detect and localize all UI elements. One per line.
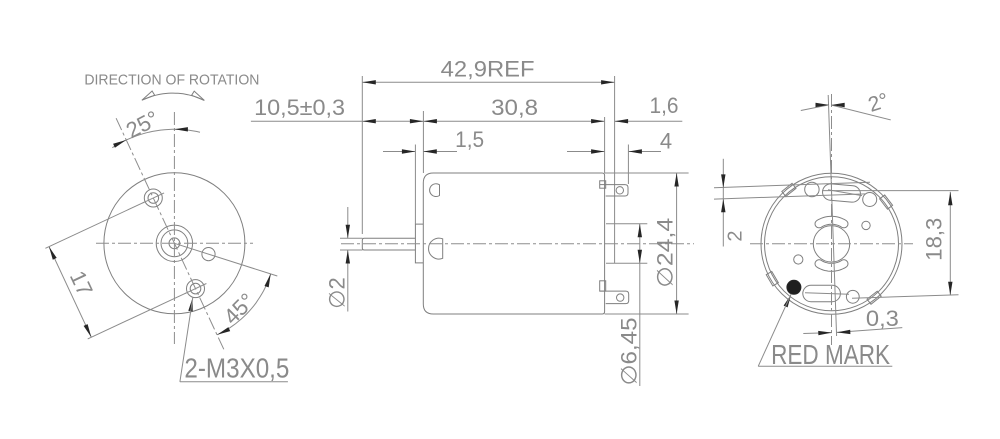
dimension 2deg left leader: [801, 105, 829, 111]
dimension 1,6 arrowhead: [615, 119, 629, 123]
dimension 18,3 lower extension line: [852, 295, 959, 299]
front view: shaft circle: [169, 238, 180, 249]
dimension 1,5 right tail: [423, 151, 457, 153]
red mark underline: [758, 365, 892, 367]
dimension 25 deg right arrowhead: [174, 127, 188, 131]
back view: outer circle: [761, 173, 902, 314]
svg-text:42,9REF: 42,9REF: [441, 57, 535, 82]
side view: lower mounting tab: [606, 291, 629, 304]
back view: crimp notch 4: [867, 291, 881, 304]
dimension 1,5 left arrowhead: [402, 149, 416, 153]
back view: lower brush arc slot: [815, 260, 848, 272]
dimension phi24,4 lower arrowhead: [674, 301, 678, 315]
dimension 17 extension line from upper hole: [45, 202, 144, 248]
dimension 4 right arrowhead: [628, 149, 642, 153]
side view: lower tab edge across terminal: [600, 290, 606, 292]
side view: center bearing mark: [429, 238, 443, 259]
side view: front bearing boss: [415, 224, 423, 263]
side view: shaft: [362, 238, 415, 250]
dimension phi24,4 line: [676, 173, 678, 314]
dimension 2deg right arrowhead: [831, 103, 845, 107]
front view: plain hole right of center: [202, 248, 215, 261]
dimension 4 right tail: [628, 151, 661, 153]
dimension 2 lower extension line: [714, 194, 866, 199]
dimension 45 deg upper arrowhead: [265, 274, 271, 288]
dimension phi6,45 line: [639, 224, 641, 386]
dimension phi2 lower arrowhead: [346, 250, 350, 264]
back view: center hole: [813, 226, 849, 262]
side view: upper terminal: [600, 181, 606, 188]
dimension 25 deg arc: [112, 129, 200, 147]
dimension 2 line: [722, 159, 724, 247]
back view: crimp notch 2: [782, 183, 796, 196]
dimension 42,9REF right arrowhead: [601, 80, 615, 84]
dimension 2 lower arrowhead: [721, 199, 725, 213]
back view: hole lower right: [846, 290, 859, 303]
side view: end cap edge line: [614, 76, 616, 263]
front view: mounting hole lower outer: [187, 280, 205, 298]
leader line to thread callout: [180, 298, 193, 382]
extension line tab edge: [627, 145, 629, 185]
dimension phi6,45 lower arrowhead: [638, 250, 642, 263]
back view: bottom slot: [803, 285, 841, 301]
side view: lower terminal: [600, 281, 606, 291]
dimension row line 10,5 / 30,8: [251, 120, 605, 122]
dimension phi2 upper tail: [347, 207, 349, 238]
dimension 2 upper extension line: [714, 182, 870, 187]
front view: tick across lower mounting hole: [185, 284, 207, 294]
front view: horizontal centerline: [96, 242, 253, 244]
dimension 30,8 left arrowhead: [423, 119, 437, 123]
svg-text:RED MARK: RED MARK: [771, 339, 890, 370]
dimension 0,3 right arrowhead: [837, 330, 851, 334]
dimension phi24,4 lower extension line: [605, 313, 689, 315]
extension line front face: [422, 111, 424, 173]
back view: 2 deg tilted line: [828, 95, 836, 336]
thread callout underline: [180, 381, 288, 383]
dimension phi2 upper extension line: [340, 237, 363, 239]
back view: hole near top slot: [805, 182, 819, 196]
svg-text:0,3: 0,3: [866, 306, 899, 331]
back view: crimp notch 3: [766, 271, 778, 285]
extension line boss front: [414, 145, 416, 225]
dimension 4 left tail: [567, 151, 605, 153]
back view: small hole right: [862, 221, 870, 229]
back view: small hole left: [794, 255, 803, 264]
red mark leader arrowhead: [784, 294, 792, 307]
dimension 2deg right leader: [831, 105, 891, 120]
dimension 45 deg lower arrowhead: [217, 327, 230, 335]
svg-text:17: 17: [65, 267, 98, 300]
dimension 1,6 tail line: [615, 120, 683, 122]
red mark dot: [787, 280, 801, 294]
dimension phi2 lower tail: [347, 250, 349, 312]
dimension 25 deg left arrowhead: [113, 140, 126, 148]
dimension 18,3 upper extension line: [822, 190, 959, 192]
side view: lower tab hole: [617, 294, 624, 301]
back view: top slot: [822, 183, 861, 203]
dimension 1,5 right arrowhead: [423, 149, 437, 153]
svg-text:1,5: 1,5: [455, 127, 484, 152]
side view: rear boss lower extension line: [606, 262, 647, 264]
front view: tick across upper mounting hole: [142, 193, 164, 203]
dimension 4 left arrowhead: [591, 149, 605, 153]
dimension phi24,4 upper extension line: [605, 172, 689, 174]
dimension 17 upper arrowhead: [49, 247, 57, 260]
svg-text:45°: 45°: [219, 288, 260, 329]
svg-text:10,5±0,3: 10,5±0,3: [254, 95, 345, 120]
side view: horizontal centerline: [341, 243, 694, 245]
svg-text:DIRECTION OF ROTATION: DIRECTION OF ROTATION: [84, 73, 259, 89]
rotation direction curved arrow: [142, 93, 204, 100]
dimension phi6,45 upper arrowhead: [638, 224, 642, 238]
back view: hole upper right: [863, 193, 877, 207]
dimension 30,8 right arrowhead: [591, 119, 605, 123]
svg-text:∅24,4: ∅24,4: [652, 218, 677, 288]
front view: vertical centerline: [173, 112, 175, 344]
back view: inner rim circle: [765, 177, 899, 311]
front view: bearing circle: [161, 230, 188, 257]
dimension 17 lower arrowhead: [84, 324, 92, 337]
svg-text:2-M3X0,5: 2-M3X0,5: [184, 353, 289, 384]
dimension 18,3 upper arrowhead: [948, 192, 952, 206]
dimension 42,9REF line: [362, 81, 614, 83]
front view: center boss circle: [156, 225, 192, 261]
svg-text:25°: 25°: [122, 106, 163, 144]
dimension 18,3 line: [949, 192, 951, 295]
svg-text:∅6,45: ∅6,45: [617, 318, 642, 386]
back view: upper brush arc slot: [815, 216, 848, 228]
dimension 0,3 left tail: [803, 332, 832, 335]
dimension 10,5 left arrowhead: [362, 119, 376, 123]
dimension 42,9REF extension line left: [361, 76, 363, 234]
front view: mounting-hole axis centerline at 25 deg: [116, 118, 225, 352]
svg-text:2: 2: [725, 230, 747, 241]
dimension 2deg left arrowhead: [816, 103, 830, 107]
back view: top slot tilt line: [828, 190, 862, 196]
side view: upper tab hole: [616, 187, 623, 194]
dimension 42,9REF left arrowhead: [362, 80, 376, 84]
svg-text:4: 4: [660, 129, 672, 154]
dimension 1,5 left tail: [383, 151, 415, 153]
svg-text:30,8: 30,8: [491, 95, 538, 120]
side view: upper mounting tab: [606, 185, 628, 196]
front view: 45 deg reference line through plain hole: [174, 243, 277, 276]
front view: mounting hole upper-left inner: [148, 193, 159, 204]
dimension 10,5 right arrowhead: [410, 119, 424, 123]
front view: motor body outer circle: [104, 173, 245, 314]
extension line back face: [604, 117, 606, 173]
front view: mounting hole upper-left outer: [144, 189, 162, 207]
svg-text:18,3: 18,3: [922, 218, 947, 261]
back view: crimp notch 1: [880, 195, 893, 209]
dimension phi2 upper arrowhead: [346, 225, 350, 239]
back view: horizontal centerline: [750, 243, 913, 245]
dimension 17 extension line from lower hole: [88, 293, 187, 339]
dimension 2 upper arrowhead: [721, 174, 725, 188]
side view: rear boss upper extension line: [606, 223, 647, 225]
back view: bottom slot inner line: [805, 293, 849, 295]
dimension 0,3 left arrowhead: [818, 331, 832, 335]
dimension 0,3 right tail: [837, 328, 903, 333]
side view: motor body outline: [423, 173, 604, 314]
back view: vertical centerline: [831, 94, 833, 345]
red mark leader line: [758, 294, 791, 366]
dimension phi2 lower extension line: [340, 249, 363, 251]
leader arrowhead at lower mounting hole: [188, 298, 192, 312]
svg-text:1,6: 1,6: [650, 93, 679, 118]
svg-text:2°: 2°: [865, 89, 891, 117]
dimension phi24,4 upper arrowhead: [674, 173, 678, 187]
side view: upper tab edge across terminal: [600, 184, 606, 186]
side view: upper vent mark: [430, 184, 440, 197]
dimension 17 line: [49, 247, 91, 338]
front view: mounting hole lower inner: [190, 283, 201, 294]
dimension 45 deg arc: [217, 274, 271, 335]
svg-text:∅2: ∅2: [325, 277, 350, 308]
dimension 18,3 lower arrowhead: [948, 282, 952, 296]
